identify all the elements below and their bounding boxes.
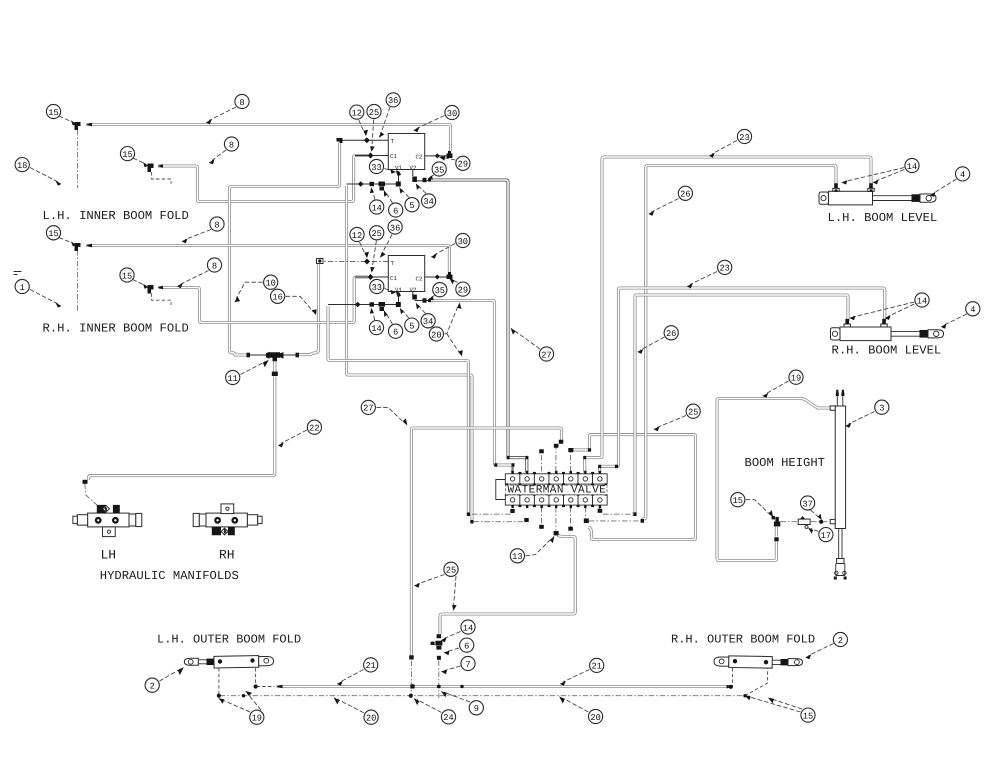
wire: R.H. fitting L-dash	[152, 293, 171, 305]
svg-text:T: T	[391, 138, 395, 145]
svg-text:25: 25	[688, 408, 698, 418]
svg-text:6: 6	[393, 206, 398, 216]
balloon 14 L.H. boom level twin	[845, 168, 904, 182]
svg-text:C1: C1	[390, 275, 397, 282]
hose 8: R.H. inner boom fold line A to valve U2 port C2	[86, 246, 449, 273]
balloon 21 L.H.	[340, 670, 364, 683]
balloon 29 U1	[443, 158, 456, 161]
svg-text:20: 20	[590, 713, 600, 723]
fitting: valve U2 C2 elbow	[447, 272, 453, 279]
node: hose B start tick	[158, 164, 164, 168]
fitting 37: boom height port fitting	[819, 520, 823, 524]
wire: waterman B1 dash-dot to riser	[470, 513, 511, 515]
svg-text:1: 1	[20, 283, 25, 293]
hose 20: valve U2 V2 line down to waterman top port T1	[431, 301, 513, 473]
hose 27 dark: valve U1 V2 line down to waterman top port T2	[430, 180, 527, 473]
fitting: waterman B5 cap	[568, 527, 573, 531]
wire: R.H. outer fold left port drop	[731, 668, 733, 687]
fitting 14: valve U2 row fitting	[370, 302, 375, 306]
balloon 15 R.H. line A	[59, 238, 74, 244]
wire: waterman B4 drop	[555, 507, 557, 531]
svg-text:L.H. INNER BOOM FOLD: L.H. INNER BOOM FOLD	[43, 209, 189, 223]
balloon 27 riser hose	[377, 407, 405, 423]
fitting 6: valve U2 row coupler	[379, 302, 386, 311]
svg-text:18: 18	[17, 161, 27, 171]
svg-text:27: 27	[541, 350, 551, 360]
svg-text:3: 3	[879, 404, 884, 414]
fitting 36: valve U1 T elbow	[337, 138, 343, 143]
balloon 8 hose B	[212, 150, 226, 161]
svg-text:26: 26	[680, 190, 690, 200]
hose 8: L.H. inner boom fold line A to valve U1 port C2	[86, 125, 451, 152]
svg-text:23: 23	[739, 133, 749, 143]
svg-text:22: 22	[309, 424, 319, 434]
svg-text:V1: V1	[395, 165, 402, 172]
balloon 8 hose A	[209, 107, 236, 121]
svg-text:21: 21	[591, 662, 601, 672]
balloon 34 U2	[418, 305, 426, 314]
svg-text:9: 9	[474, 704, 479, 714]
cylinder: L.H. outer boom fold	[184, 656, 273, 668]
fitting 33: valve U1 V1 elbow	[396, 170, 401, 176]
svg-text:4: 4	[970, 305, 975, 315]
balloon 3	[849, 412, 875, 425]
svg-text:16: 16	[272, 293, 282, 303]
balloon 33 U1	[384, 169, 393, 172]
svg-text:25: 25	[446, 566, 456, 576]
fitting: tee right cap	[296, 353, 300, 358]
fitting 11: tee junction	[266, 352, 284, 362]
balloon 14 R.H. boom level twin	[853, 302, 914, 317]
wire: L.H. solid hose dashed end	[257, 686, 275, 688]
svg-text:33: 33	[372, 283, 382, 293]
balloon 37	[811, 510, 820, 518]
svg-text:C2: C2	[416, 275, 423, 282]
svg-text:C1: C1	[390, 153, 397, 160]
svg-text:33: 33	[371, 163, 381, 173]
fitting: waterman B1 corner	[510, 509, 514, 513]
node: short marks above balloon 1	[14, 272, 22, 275]
valve bank tabs	[505, 471, 607, 508]
balloon 5 U2	[402, 310, 409, 318]
wire: boom height port line with valve 17	[781, 521, 830, 523]
wire: valve U1 T-port line down-left to tee junction 11	[230, 143, 340, 356]
svg-text:4: 4	[960, 170, 965, 180]
fitting 15: R.H. line A elbow	[75, 243, 81, 251]
balloon 35 U2	[431, 296, 435, 298]
svg-text:8: 8	[239, 98, 244, 108]
fitting 25: valve U1 C1 fitting	[368, 153, 374, 159]
wire: waterman B3 stub	[540, 507, 542, 525]
balloon 19 boom height	[766, 381, 789, 394]
svg-text:2: 2	[150, 682, 155, 692]
svg-text:V2: V2	[410, 287, 417, 294]
wire: tee junction right arm	[281, 354, 297, 356]
op-valve U2 body	[388, 256, 424, 292]
balloon 6 U2	[386, 313, 392, 324]
wire: valve U1 V1 row	[347, 176, 399, 184]
hose 26: R.H. boom level inner hose to waterman B7	[632, 295, 848, 514]
fitting 29: valve U2 C2 fitting	[435, 275, 440, 280]
balloon 9	[445, 693, 471, 703]
wire: valve U2 V2 drop	[413, 291, 430, 301]
balloon 17	[811, 529, 819, 532]
balloon 15 R.H. line B	[133, 280, 146, 286]
balloon 15 L.H. line A	[59, 116, 74, 123]
wire: valve U2 C2 to elbow	[425, 276, 447, 278]
wire: waterman T3 stub	[540, 454, 542, 472]
valve bank label box	[505, 485, 607, 494]
wire: junction 9 dash-dot tail	[438, 661, 440, 699]
fitting: B4 line elbows	[494, 463, 514, 466]
fitting 35: valve U2 V2 pair	[423, 298, 432, 302]
fitting: valve U2 row end diamond	[355, 302, 361, 308]
svg-text:15: 15	[48, 108, 58, 118]
svg-text:37: 37	[802, 499, 812, 509]
fitting: boom height union	[774, 537, 778, 541]
svg-text:14: 14	[907, 162, 917, 172]
svg-text:V1: V1	[395, 287, 402, 294]
balloon 30 U2	[434, 244, 455, 256]
manifold: L.H. hydraulic manifold	[73, 505, 142, 537]
fitting 29: valve U1 C2 fitting	[435, 153, 440, 158]
balloon 35 U1	[430, 175, 434, 177]
wire: L.H. outer fold left port drop	[218, 668, 220, 695]
wire: valve U2 T-port dashed hose	[324, 261, 388, 263]
wire: waterman B7 stub	[599, 507, 601, 509]
svg-text:HYDRAULIC MANIFOLDS: HYDRAULIC MANIFOLDS	[100, 569, 239, 583]
svg-text:20: 20	[431, 330, 441, 340]
balloon 36 U2	[382, 235, 393, 255]
svg-text:R.H. INNER BOOM FOLD: R.H. INNER BOOM FOLD	[43, 322, 189, 336]
fitting: waterman T5 elbow	[568, 448, 573, 452]
svg-text:15: 15	[733, 496, 743, 506]
cylinder: boom height	[830, 390, 846, 580]
hose 22: run to L.H. hydraulic manifold	[89, 377, 275, 480]
svg-text:25: 25	[371, 229, 381, 239]
balloon 30 U1	[417, 116, 445, 129]
wire: valve U1 V2 drop	[413, 170, 429, 182]
svg-text:35: 35	[435, 286, 445, 296]
svg-text:14: 14	[371, 203, 381, 213]
wire: L.H. fitting L-dash	[152, 172, 171, 184]
balloon 22	[281, 430, 307, 444]
valve 17: boom height inline valve	[798, 516, 810, 528]
fitting: valve U1 C2 elbow	[447, 151, 453, 158]
svg-text:L.H. OUTER BOOM FOLD: L.H. OUTER BOOM FOLD	[157, 632, 301, 646]
wire: bottom dash-dot run 20	[220, 695, 745, 697]
op-valve U1 body	[388, 134, 424, 170]
node: L.H. inner fold centerline	[77, 130, 79, 188]
balloon 4 L.H.	[933, 179, 957, 194]
wire: waterman T4 stub	[556, 443, 561, 472]
cylinder: L.H. boom level	[819, 183, 936, 205]
wire: valve U1 T-port to elbow	[342, 139, 388, 141]
balloon 12 U1	[359, 120, 365, 133]
wire: valve U2 T-port line down to tee junction 11	[299, 264, 319, 355]
svg-text:36: 36	[388, 96, 398, 106]
svg-text:25: 25	[369, 108, 379, 118]
node: hose B2 start tick	[158, 286, 164, 290]
fitting: tee left cap	[247, 353, 251, 358]
svg-text:8: 8	[212, 261, 217, 271]
fitting 12: valve U1 T-line fitting	[364, 137, 370, 143]
balloon 14 U1	[372, 191, 375, 200]
balloon 21 R.H.	[563, 670, 590, 683]
svg-text:R.H. OUTER BOOM FOLD: R.H. OUTER BOOM FOLD	[671, 632, 815, 646]
fitting: waterman B4 tee	[554, 531, 559, 535]
balloon 16	[286, 296, 314, 312]
wire: valve U2 C1 to corner	[355, 276, 388, 278]
fitting: hose 22 union	[272, 372, 278, 377]
fitting 6: junction 9 coupler	[431, 641, 443, 650]
balloon 8 hose B2	[180, 271, 209, 285]
fitting 25: valve U2 C1 fitting	[368, 274, 374, 280]
svg-text:L.H. BOOM LEVEL: L.H. BOOM LEVEL	[828, 211, 938, 225]
svg-text:10: 10	[265, 279, 275, 289]
balloon 5 U1	[402, 190, 410, 198]
fitting: waterman T3 cap	[539, 449, 544, 453]
balloon 26 L.H.	[652, 199, 679, 213]
svg-text:34: 34	[423, 197, 433, 207]
hose 8: R.H. inner boom fold line B to valve U2 port C1	[158, 277, 368, 323]
balloon 11	[241, 362, 266, 375]
svg-text:17: 17	[821, 531, 831, 541]
balloon 18	[30, 168, 58, 183]
svg-text:12: 12	[352, 231, 362, 241]
svg-text:13: 13	[512, 552, 522, 562]
balloon 23 L.H.	[712, 141, 737, 155]
wire: R.H. outer fold right port dashed link	[745, 668, 768, 696]
hose 23: L.H. boom level outer hose to waterman T6	[585, 157, 871, 473]
balloon 15 boom height top	[746, 500, 771, 515]
svg-text:6: 6	[393, 328, 398, 338]
hose 19: boom height cylinder loop	[717, 399, 830, 561]
hose 20: valve U2 V1 row down to waterman bottom port B1	[328, 306, 468, 512]
fitting: L.H. boom level port fittings	[835, 189, 873, 191]
wire: waterman T5 stub	[570, 453, 572, 472]
svg-text:35: 35	[434, 165, 444, 175]
svg-text:5: 5	[409, 201, 414, 211]
hose 21: bottom solid run between outer fold cylinders	[277, 685, 734, 688]
svg-text:BOOM HEIGHT: BOOM HEIGHT	[745, 456, 825, 470]
balloon 6 U1	[386, 193, 393, 203]
wire: waterman T1 stub	[511, 467, 513, 472]
balloon 25 U1	[372, 120, 374, 149]
fitting: valve U1 row end diamond	[358, 181, 364, 187]
svg-text:36: 36	[390, 223, 400, 233]
cylinder: R.H. outer boom fold	[714, 656, 803, 668]
balloon 15 R.H. outer twin	[748, 697, 802, 713]
balloon 36 U1	[381, 107, 391, 135]
svg-text:19: 19	[252, 714, 262, 724]
balloon 33 U2	[385, 289, 393, 292]
balloon 7 junction	[445, 666, 461, 671]
fitting: waterman B6 cross	[584, 518, 589, 523]
wire: valve U2 V1 row	[328, 297, 399, 305]
svg-text:15: 15	[122, 271, 132, 281]
fitting: boom height tee	[774, 517, 780, 527]
wire: hose 25 lower dash-dot tail	[410, 661, 412, 699]
balloon 29 U2	[452, 280, 458, 283]
cylinder: R.H. boom level	[831, 319, 944, 341]
fitting 35: valve U1 V2 pair	[423, 178, 432, 182]
wire: valve U1 C2 to elbow	[425, 155, 447, 157]
svg-text:11: 11	[227, 374, 237, 384]
balloon 8 hose A2	[185, 230, 211, 240]
balloon 4 R.H.	[944, 314, 967, 325]
svg-text:27: 27	[363, 404, 373, 414]
svg-text:C2: C2	[416, 153, 423, 160]
fitting 15: L.H. line B elbow	[148, 164, 154, 173]
svg-text:15: 15	[803, 711, 813, 721]
balloon 20 L.H.	[337, 699, 364, 713]
balloon 24	[417, 700, 442, 713]
wire: waterman B6 stub	[585, 507, 587, 518]
node: R.H. inner fold centerline	[77, 250, 79, 311]
hose 25: waterman top port T4 riser over to bottom junction line	[411, 428, 561, 656]
node: hose A start tick	[86, 123, 92, 127]
svg-text:WATERMAN VALVE: WATERMAN VALVE	[508, 484, 607, 496]
balloon 25 U2	[372, 241, 376, 269]
fitting: waterman B3 cap	[539, 525, 544, 529]
balloon 1	[30, 290, 58, 305]
fitting: waterman T4 jog	[554, 440, 564, 448]
hose 26: L.H. boom level inner hose to waterman B6	[642, 166, 836, 521]
wire: boom height valve line stub	[572, 449, 574, 451]
svg-text:29: 29	[458, 285, 468, 295]
wire: waterman B7 dash-dot to R.H. inner riser	[603, 513, 632, 515]
svg-text:LH: LH	[101, 548, 117, 563]
fitting 5: valve U2 row elbow	[396, 302, 401, 307]
hose 13: waterman bottom port B4 loop to outer fold junction	[440, 535, 575, 634]
wire: L.H. outer fold right port drop	[255, 668, 257, 686]
fitting: waterman B2 corner	[524, 518, 528, 522]
balloon 25 bottom twin	[418, 575, 457, 608]
svg-text:12: 12	[352, 108, 362, 118]
fitting: hose 22 manifold elbow	[83, 480, 88, 484]
svg-text:RH: RH	[219, 548, 235, 563]
balloon 14 junction	[444, 632, 461, 639]
hose 25: waterman T5-B6 loop	[573, 435, 696, 540]
svg-text:20: 20	[366, 714, 376, 724]
fitting 15: R.H. line B elbow	[148, 285, 154, 294]
balloon 13	[526, 539, 552, 556]
wire: hose 22 manifold tail	[85, 484, 98, 506]
fitting 7: junction 9 nipple	[437, 656, 441, 660]
balloon 14 U2	[372, 311, 375, 320]
svg-text:15: 15	[122, 150, 132, 160]
svg-text:30: 30	[447, 109, 457, 119]
balloon 23 R.H.	[690, 272, 717, 285]
node: hose A2 start tick	[86, 244, 92, 248]
balloon 2 L.H.	[160, 669, 181, 681]
wire: waterman B6 dash-dot to L.H. inner riser	[589, 520, 641, 522]
valve bank left bracket	[496, 480, 506, 500]
balloon 2 R.H.	[809, 644, 834, 656]
fitting 34: valve U2 V2 fitting	[412, 295, 417, 300]
svg-text:5: 5	[409, 321, 414, 331]
wire: waterman B5 stub	[570, 507, 572, 527]
fitting 34: valve U1 V2 fitting	[412, 177, 417, 183]
node: junction dots bottom runs	[217, 694, 221, 698]
svg-text:6: 6	[464, 641, 469, 651]
svg-text:14: 14	[917, 296, 927, 306]
svg-text:24: 24	[443, 713, 453, 723]
svg-text:14: 14	[463, 623, 473, 633]
fitting 24: hose 25 lower union	[409, 655, 414, 659]
fitting: valve U2 T elbow	[317, 259, 324, 264]
svg-text:R.H. BOOM LEVEL: R.H. BOOM LEVEL	[832, 344, 942, 358]
svg-text:34: 34	[423, 317, 433, 327]
fitting 14: junction 9 hose end	[437, 634, 442, 638]
svg-text:30: 30	[458, 237, 468, 247]
svg-text:T: T	[391, 260, 395, 267]
fitting 5: valve U1 V1 row elbow	[396, 182, 401, 187]
balloon 19 outer fold twin	[222, 694, 262, 713]
balloon 15 L.H. line B	[133, 158, 146, 164]
balloon 27 dark hose	[514, 330, 541, 349]
balloon 20 R.H.	[563, 698, 589, 712]
svg-text:29: 29	[458, 160, 468, 170]
balloon 6 junction	[447, 648, 459, 652]
balloon 34 U1	[418, 186, 426, 194]
wire: valve U1 C1 to corner	[355, 155, 388, 157]
svg-text:7: 7	[465, 660, 470, 670]
balloon 26 R.H.	[641, 337, 665, 350]
hose 22: tee junction down stub	[273, 359, 276, 372]
wire: waterman B2 dash-dot to riser	[474, 521, 524, 523]
hose 23: R.H. boom level outer hose to waterman T7	[600, 288, 885, 473]
fitting 33: valve U2 V1 elbow	[396, 291, 401, 297]
manifold: R.H. hydraulic manifold	[193, 504, 262, 535]
svg-text:15: 15	[48, 229, 58, 239]
svg-text:8: 8	[229, 140, 234, 150]
hose 8: L.H. inner boom fold line B to valve U1 port C1	[158, 156, 368, 202]
wire: tee junction left arm	[250, 354, 269, 356]
fitting 15: L.H. line A elbow	[75, 122, 81, 130]
fitting 6: valve U1 row coupler	[379, 182, 386, 191]
balloon 20 twin leaders	[444, 306, 459, 354]
svg-text:21: 21	[365, 661, 375, 671]
fitting 12: valve U2 T fitting	[364, 259, 370, 265]
balloon 12 U2	[360, 242, 366, 255]
hose 27: valve U1 V1 row down to waterman bottom port B2	[347, 186, 473, 520]
valve bank: waterman valve	[496, 474, 607, 505]
svg-text:26: 26	[666, 329, 676, 339]
balloon 10	[236, 282, 263, 299]
svg-text:2: 2	[838, 636, 843, 646]
fitting: waterman B7 corner	[598, 509, 603, 513]
fitting 14: valve U1 row fitting	[370, 182, 375, 186]
balloon 25 middle	[657, 416, 686, 428]
svg-text:V2: V2	[410, 165, 417, 172]
svg-text:8: 8	[214, 220, 219, 230]
svg-text:23: 23	[719, 264, 729, 274]
svg-text:14: 14	[371, 324, 381, 334]
svg-text:19: 19	[791, 374, 801, 384]
